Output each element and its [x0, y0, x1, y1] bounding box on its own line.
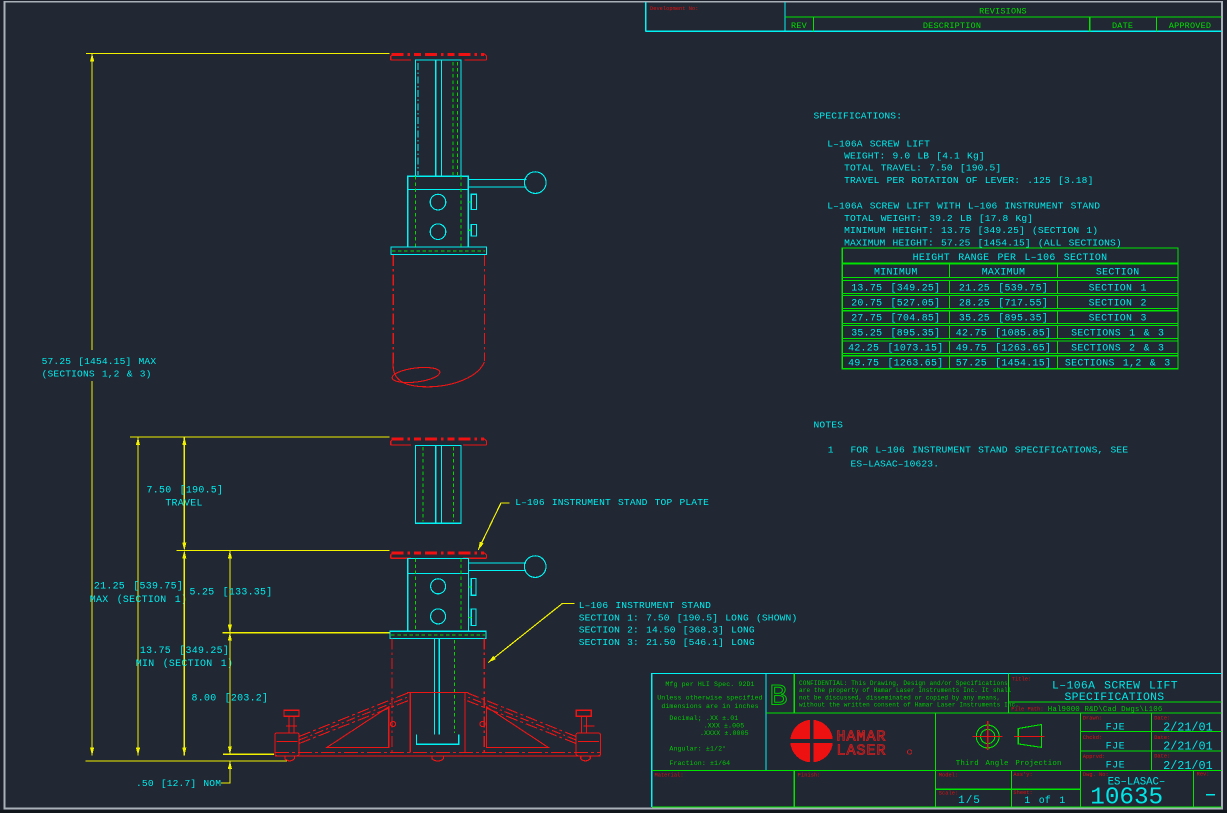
table outer border — [842, 248, 1178, 369]
svg-text:7.50 [190.5]: 7.50 [190.5] — [147, 485, 224, 496]
svg-text:SECTION 1: 7.50 [190.5] LONG (: SECTION 1: 7.50 [190.5] LONG (SHOWN) — [579, 613, 798, 624]
gusset bolt right — [480, 722, 485, 727]
dimension line 21.25 — [137, 437, 139, 755]
svg-text:SECTIONS 2 & 3: SECTIONS 2 & 3 — [1071, 343, 1164, 354]
svg-text:49.75 [1263.65]: 49.75 [1263.65] — [956, 343, 1051, 354]
svg-text:SECTION 2: SECTION 2 — [1089, 297, 1147, 308]
svg-text:1/5: 1/5 — [958, 795, 981, 807]
extended screw tube (lower view) — [416, 445, 462, 523]
svg-text:Fraction: ±1/64: Fraction: ±1/64 — [669, 760, 730, 767]
svg-text:13.75 [349.25]: 13.75 [349.25] — [140, 645, 229, 656]
svg-text:MAXIMUM HEIGHT: 57.25 [1454.15: MAXIMUM HEIGHT: 57.25 [1454.15] (ALL SEC… — [844, 238, 1122, 249]
title row divider — [842, 262, 1178, 264]
svg-text:Decimal; .XX ±.01: Decimal; .XX ±.01 — [669, 715, 738, 722]
data row 5 — [842, 341, 1178, 354]
svg-text:2/21/01: 2/21/01 — [1163, 759, 1213, 773]
svg-text:SECTION: SECTION — [1096, 266, 1140, 277]
leader line: top plate note — [478, 503, 509, 550]
svg-text:Hal9000 R&D\Cad Dwgs\L106: Hal9000 R&D\Cad Dwgs\L106 — [1048, 706, 1163, 714]
notes block — [814, 420, 1129, 470]
top plate (upper view, phantom red) — [391, 54, 487, 60]
floor extension line — [86, 760, 288, 762]
svg-text:CONFIDENTIAL: This Drawing, De: CONFIDENTIAL: This Drawing, Design and/o… — [799, 680, 1008, 687]
center posts and collar — [407, 693, 469, 753]
specifications text block — [814, 111, 1122, 249]
right gusset chords — [464, 693, 576, 744]
svg-text:LASER: LASER — [837, 743, 887, 760]
svg-text:Title:: Title: — [1012, 676, 1031, 682]
svg-text:L–106A SCREW LIFT: L–106A SCREW LIFT — [827, 138, 930, 149]
svg-text:TOTAL WEIGHT: 39.2 LB [17.8 Kg: TOTAL WEIGHT: 39.2 LB [17.8 Kg] — [844, 213, 1033, 224]
dimension line 5.25 + 8.00 — [229, 551, 231, 755]
left gusset cutout — [327, 707, 389, 748]
leader note: top plate — [515, 497, 709, 508]
header row box — [842, 264, 1178, 278]
svg-text:APPROVED: APPROVED — [1169, 21, 1211, 31]
svg-text:are the property of Hamar Lase: are the property of Hamar Laser Instrume… — [799, 687, 1012, 694]
svg-text:SPECIFICATIONS:: SPECIFICATIONS: — [814, 111, 903, 122]
svg-text:27.75 [704.85]: 27.75 [704.85] — [851, 313, 940, 324]
dimension line 7.50 travel + 13.75 min — [183, 437, 185, 755]
foot bottom extension line — [223, 753, 274, 755]
svg-text:FOR L–106 INSTRUMENT STAND SPE: FOR L–106 INSTRUMENT STAND SPECIFICATION… — [851, 444, 1129, 455]
svg-text:dimensions are in inches: dimensions are in inches — [661, 703, 758, 710]
svg-text:2/21/01: 2/21/01 — [1163, 740, 1213, 754]
svg-text:REVISIONS: REVISIONS — [979, 7, 1027, 17]
svg-text:L–106 INSTRUMENT STAND TOP PLA: L–106 INSTRUMENT STAND TOP PLATE — [515, 497, 709, 508]
gusset bolt left — [391, 722, 396, 727]
svg-text:TRAVEL PER ROTATION OF LEVER:: TRAVEL PER ROTATION OF LEVER: .125 [3.18… — [844, 175, 1093, 186]
dimension .50 nom leader — [221, 761, 230, 783]
gear housing (upper view) — [408, 176, 469, 247]
svg-text:TRAVEL: TRAVEL — [165, 498, 202, 509]
svg-text:MAXIMUM: MAXIMUM — [982, 266, 1026, 277]
data row 2 — [842, 295, 1178, 308]
svg-text:42.25 [1073.15]: 42.25 [1073.15] — [848, 343, 943, 354]
svg-text:FJE: FJE — [1106, 761, 1126, 772]
svg-text:L–106A SCREW LIFT: L–106A SCREW LIFT — [1052, 681, 1178, 693]
svg-text:42.75 [1085.85]: 42.75 [1085.85] — [956, 327, 1051, 338]
svg-text:21.25 [539.75]: 21.25 [539.75] — [94, 581, 183, 592]
leader line: stand sections note — [488, 604, 574, 663]
svg-text:.XXX ±.005: .XXX ±.005 — [704, 723, 745, 730]
screw shaft lower extension (cyan) — [416, 639, 458, 745]
svg-text:Apprvd:: Apprvd: — [1083, 754, 1106, 760]
svg-text:B: B — [770, 681, 788, 715]
svg-text:SECTION 1: SECTION 1 — [1089, 282, 1147, 293]
shaft bottom cup — [416, 735, 458, 745]
svg-text:1 of 1: 1 of 1 — [1024, 795, 1065, 807]
right foot block — [576, 733, 600, 756]
title block outer cyan border — [652, 674, 1222, 807]
svg-text:13.75 [349.25]: 13.75 [349.25] — [851, 282, 940, 293]
screw shaft lines — [436, 60, 442, 176]
svg-text:File Path:: File Path: — [1011, 707, 1043, 713]
svg-text:SECTION 3: SECTION 3 — [1089, 313, 1147, 324]
svg-text:Third Angle Projection: Third Angle Projection — [956, 760, 1062, 768]
svg-text:10635: 10635 — [1090, 784, 1163, 811]
svg-text:8.00 [203.2]: 8.00 [203.2] — [192, 692, 269, 703]
svg-text:Unless otherwise specified: Unless otherwise specified — [657, 695, 762, 702]
svg-text:SPECIFICATIONS: SPECIFICATIONS — [1065, 692, 1165, 704]
svg-text:5.25 [133.35]: 5.25 [133.35] — [190, 587, 273, 598]
dimension extension line y=632.7 — [223, 632, 390, 634]
right gusset cutout — [487, 707, 549, 748]
data row 6 — [842, 356, 1178, 369]
side bolts (upper view) — [468, 194, 476, 236]
crank handle (lower view) — [469, 556, 547, 578]
left leveling screw — [284, 716, 299, 733]
data row 3 — [842, 311, 1178, 324]
svg-text:20.75 [527.05]: 20.75 [527.05] — [851, 297, 940, 308]
dimension line 57.25 — [91, 53, 93, 755]
svg-text:Drawn:: Drawn: — [1083, 715, 1102, 721]
svg-text:.XXXX ±.0005: .XXXX ±.0005 — [700, 730, 749, 737]
hole upper — [430, 194, 446, 210]
svg-text:HEIGHT RANGE PER L–106 SECTION: HEIGHT RANGE PER L–106 SECTION — [913, 252, 1108, 263]
svg-text:ES–LASAC–10623.: ES–LASAC–10623. — [851, 458, 940, 469]
svg-text:Angular: ±1/2°: Angular: ±1/2° — [669, 744, 726, 752]
gear housing (lower view) — [408, 558, 469, 631]
svg-text:not be discussed, disseminated: not be discussed, disseminated or copied… — [799, 694, 1000, 701]
data row 1 — [842, 281, 1178, 294]
hole lower — [430, 224, 446, 240]
svg-text:FJE: FJE — [1106, 742, 1126, 753]
development no cell border — [646, 2, 1222, 31]
lift column outer tube (upper view) — [416, 60, 462, 176]
revision table — [646, 2, 1222, 31]
svg-text:SECTION 2: 14.50 [368.3] LONG: SECTION 2: 14.50 [368.3] LONG — [579, 625, 755, 636]
left foot block — [275, 733, 299, 756]
hidden lines green — [453, 62, 457, 175]
side bolts (lower view) — [469, 579, 477, 626]
svg-text:Material:: Material: — [655, 772, 684, 778]
svg-text:L–106 INSTRUMENT STAND: L–106 INSTRUMENT STAND — [579, 600, 711, 611]
svg-text:MINIMUM: MINIMUM — [874, 266, 918, 277]
column centerline dash-dot — [417, 63, 419, 175]
svg-text:57.25 [1454.15]: 57.25 [1454.15] — [956, 358, 1051, 369]
svg-text:2/21/01: 2/21/01 — [1163, 721, 1213, 735]
svg-text:SECTIONS 1,2 & 3: SECTIONS 1,2 & 3 — [1065, 358, 1171, 369]
left gusset chords — [299, 693, 411, 744]
top plate raised position (phantom red) — [391, 439, 487, 445]
data row 4 — [842, 326, 1178, 339]
crank handle (upper view) — [468, 172, 546, 194]
svg-text:DATE: DATE — [1112, 21, 1133, 31]
svg-text:TOTAL TRAVEL: 7.50 [190.5]: TOTAL TRAVEL: 7.50 [190.5] — [844, 163, 1001, 174]
svg-text:35.25 [895.35]: 35.25 [895.35] — [959, 313, 1048, 324]
hole upper — [431, 579, 446, 594]
foot pad center — [432, 756, 444, 761]
svg-text:NOTES: NOTES — [814, 420, 844, 431]
svg-text:21.25 [539.75]: 21.25 [539.75] — [959, 282, 1048, 293]
title block green grid — [652, 674, 1222, 807]
lift base plate (upper view) — [391, 247, 487, 255]
svg-text:Development No:: Development No: — [650, 6, 698, 12]
top plate lowered position (phantom red) — [391, 553, 487, 559]
svg-text:REV: REV — [791, 21, 808, 31]
stand tube (lower view, phantom red) — [392, 639, 484, 753]
svg-text:SECTION 3: 21.50 [546.1] LONG: SECTION 3: 21.50 [546.1] LONG — [579, 637, 755, 648]
svg-text:Chckd:: Chckd: — [1083, 735, 1102, 741]
hidden lines in housing — [415, 558, 461, 631]
svg-text:DESCRIPTION: DESCRIPTION — [923, 21, 981, 31]
third angle projection symbol — [976, 725, 999, 748]
svg-text:Model:: Model: — [939, 772, 958, 778]
svg-text:1: 1 — [828, 444, 834, 455]
svg-text:Mfg per HLI Spec. 92D1: Mfg per HLI Spec. 92D1 — [665, 681, 754, 688]
foot pad left — [285, 756, 295, 761]
svg-text:MAX (SECTION 1): MAX (SECTION 1) — [90, 594, 187, 605]
pipe break squiggle — [393, 362, 484, 387]
svg-text:35.25 [895.35]: 35.25 [895.35] — [851, 327, 940, 338]
svg-text:49.75 [1263.65]: 49.75 [1263.65] — [848, 358, 943, 369]
svg-text:Scale:: Scale: — [939, 790, 958, 796]
svg-text:(SECTIONS 1,2 & 3): (SECTIONS 1,2 & 3) — [42, 368, 152, 379]
svg-text:28.25 [717.55]: 28.25 [717.55] — [959, 297, 1048, 308]
hidden lines in housing — [415, 176, 461, 247]
svg-text:57.25 [1454.15] MAX: 57.25 [1454.15] MAX — [42, 356, 157, 367]
svg-text:Dwg. No:: Dwg. No: — [1083, 772, 1109, 778]
stand tube section (upper view, phantom red) — [391, 255, 484, 387]
svg-text:.50 [12.7] NOM: .50 [12.7] NOM — [136, 778, 221, 789]
height range table — [842, 248, 1178, 369]
rev dash — [1206, 794, 1215, 796]
dimension extension line top (57.25 max) — [86, 52, 390, 54]
svg-text:L–106A SCREW LIFT WITH L–106 I: L–106A SCREW LIFT WITH L–106 INSTRUMENT … — [827, 201, 1100, 212]
lift base plate (lower view) — [390, 631, 486, 638]
svg-text:SECTIONS 1 & 3: SECTIONS 1 & 3 — [1071, 327, 1164, 338]
svg-text:without the written consent of: without the written consent of Hamar Las… — [799, 702, 1019, 709]
hamar laser logo — [790, 720, 833, 763]
svg-text:MIN (SECTION 1): MIN (SECTION 1) — [136, 658, 233, 669]
svg-text:Finish:: Finish: — [798, 772, 821, 778]
svg-text:WEIGHT: 9.0 LB [4.1 Kg]: WEIGHT: 9.0 LB [4.1 Kg] — [844, 151, 985, 162]
foot pad right — [581, 756, 591, 761]
dimension extension line y=550.5 — [177, 550, 390, 552]
dimension extension line y=437 — [130, 436, 390, 438]
leader note: instrument stand sections — [579, 600, 798, 648]
base bottom rails — [275, 751, 601, 753]
svg-text:FJE: FJE — [1106, 723, 1126, 734]
svg-text:Ass'y:: Ass'y: — [1013, 772, 1032, 778]
svg-text:MINIMUM HEIGHT: 13.75 [349.25]: MINIMUM HEIGHT: 13.75 [349.25] (SECTION … — [844, 225, 1098, 236]
hole lower — [431, 609, 446, 624]
revisions header line — [785, 17, 1221, 31]
right leveling screw — [576, 716, 594, 733]
